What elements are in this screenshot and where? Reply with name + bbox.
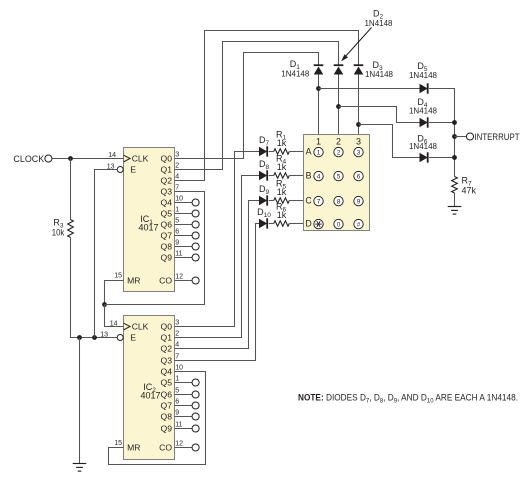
svg-text:A: A: [306, 147, 312, 157]
resistor R4 1k: [274, 153, 290, 178]
wire keypad column 1: [318, 75, 320, 135]
svg-text:CLOCK: CLOCK: [13, 154, 45, 164]
svg-text:14: 14: [108, 152, 116, 159]
svg-text:1k: 1k: [277, 210, 287, 220]
wire R4 to keypad row B: [289, 175, 303, 177]
svg-text:1N4148: 1N4148: [409, 71, 438, 80]
wire D9 cathode to R5: [269, 200, 274, 202]
svg-text:INTERRUPT: INTERRUPT: [475, 132, 520, 142]
wire junction down to IC2 CLK pin 14: [105, 305, 124, 327]
wire R6 to keypad row D: [289, 223, 303, 225]
svg-text:10k: 10k: [52, 228, 65, 238]
IC1 Q7 pin 6 unused (open circle): [175, 232, 200, 239]
wire enable net riser to IC1 E pin 13: [95, 170, 118, 338]
wire D7 cathode to R1: [269, 151, 274, 153]
node interrupt bus / INTERRUPT tap: [452, 134, 457, 139]
diode D6 1N4148: [409, 133, 438, 162]
diode D3 1N4148 (column 3): [354, 65, 364, 74]
svg-text:Q1: Q1: [161, 333, 173, 343]
svg-text:10: 10: [175, 365, 183, 372]
key 6: [354, 171, 363, 180]
svg-text:Q3: Q3: [161, 187, 173, 197]
wire R3 bottom to enable net: [71, 238, 118, 338]
svg-text:MR: MR: [127, 443, 140, 453]
IC IC2 4017 decade counter: [124, 316, 175, 460]
IC2 Q5 pin 1 unused (open circle): [175, 379, 200, 386]
svg-text:9: 9: [175, 410, 179, 417]
wire D5 cathode to interrupt bus: [429, 89, 454, 177]
svg-text:E: E: [130, 333, 136, 343]
IC1 Q6 pin 5 unused (open circle): [175, 221, 200, 228]
wire IC2 Q4 pin 10 loop to MR pin 15: [109, 372, 206, 465]
wire D8 cathode to R4: [269, 175, 274, 177]
svg-text:#: #: [357, 222, 361, 229]
svg-text:1k: 1k: [277, 162, 287, 172]
wire IC2 Q2 riser to keypad row C: [175, 201, 260, 349]
svg-text:4: 4: [175, 174, 179, 181]
wire R7 to ground: [454, 193, 456, 207]
wire IC2 Q1 riser to keypad row B: [175, 176, 260, 338]
IC2 Q8 pin 9 unused (open circle): [175, 413, 200, 420]
keypad matrix body: [304, 135, 370, 231]
key 9: [354, 196, 363, 205]
svg-text:B: B: [306, 171, 312, 181]
pin bubble IC2 E (active low): [117, 335, 123, 341]
svg-text:5: 5: [175, 388, 179, 395]
wire D4 cathode to interrupt bus: [429, 122, 454, 124]
svg-text:Q6: Q6: [161, 390, 173, 400]
svg-text:Q9: Q9: [161, 424, 173, 434]
svg-text:Q4: Q4: [161, 367, 173, 377]
svg-text:1k: 1k: [277, 138, 287, 148]
wire D6 cathode to interrupt bus: [429, 157, 454, 159]
wire CLOCK terminal to IC1 CLK pin 14: [52, 158, 124, 160]
svg-text:1N4148: 1N4148: [364, 19, 393, 28]
svg-text:10: 10: [175, 196, 183, 203]
wire column 3 tap to D6 anode: [359, 125, 420, 158]
diode D5 1N4148: [409, 61, 438, 94]
svg-text:Q2: Q2: [161, 176, 173, 186]
svg-text:CO: CO: [159, 276, 172, 286]
diode D1 1N4148 (column 1): [314, 65, 324, 74]
svg-text:CO: CO: [159, 443, 172, 453]
svg-text:4017: 4017: [140, 391, 160, 401]
svg-text:47k: 47k: [462, 186, 477, 196]
wire IC2 Q0 riser to keypad row A: [175, 152, 260, 327]
ground (right): [448, 207, 462, 215]
node column 3 tap to D6: [356, 122, 361, 127]
diode D10 1N4148 (row D): [257, 207, 271, 229]
IC2 Q9 pin 11 unused (open circle): [175, 425, 200, 432]
svg-text:Q5: Q5: [161, 209, 173, 219]
svg-text:Q2: Q2: [161, 344, 173, 354]
pin bubble IC1 E (active low): [117, 167, 123, 173]
IC1 Q4 pin 10 unused (open circle): [175, 199, 200, 206]
diode D4 1N4148: [409, 97, 438, 128]
label D1: [281, 59, 310, 79]
node interrupt bus / D6: [452, 155, 457, 160]
svg-text:E: E: [130, 165, 136, 175]
key 2: [334, 147, 343, 156]
svg-text:3: 3: [356, 137, 361, 147]
node junction enable net / ground branch: [77, 335, 82, 340]
svg-text:6: 6: [175, 399, 179, 406]
IC1 Q9 pin 11 unused (open circle): [175, 254, 200, 261]
svg-text:7: 7: [175, 354, 179, 361]
key pound: [354, 219, 363, 228]
svg-text:1: 1: [317, 150, 321, 157]
wire IC1 MR pin 15 stub: [105, 281, 124, 305]
svg-text:2: 2: [336, 137, 341, 147]
svg-text:13: 13: [107, 163, 115, 170]
IC2 CO pin 12 unused (open circle): [175, 444, 200, 451]
svg-text:Q7: Q7: [161, 231, 173, 241]
IC1 CO pin 12 unused (open circle): [175, 277, 200, 284]
svg-text:9: 9: [175, 240, 179, 247]
svg-text:3: 3: [357, 150, 361, 157]
svg-text:12: 12: [175, 274, 183, 281]
wire R5 to keypad row C: [289, 200, 303, 202]
wire column 2 tap to D4 anode: [339, 107, 420, 123]
wire IC1 Q0 pin 3 to diode D1 cathode: [175, 53, 319, 159]
svg-text:Q4: Q4: [161, 198, 173, 208]
svg-text:3: 3: [175, 320, 179, 327]
svg-text:D: D: [305, 219, 311, 229]
resistor R3 10k: [52, 218, 74, 238]
wire IC1 Q2 pin 4 to diode D3 cathode: [175, 31, 359, 181]
diode D2 1N4148 (column 2): [334, 65, 344, 74]
svg-text:12: 12: [175, 441, 183, 448]
svg-text:1: 1: [316, 137, 321, 147]
key 3: [354, 147, 363, 156]
IC IC1 4017 decade counter: [124, 148, 175, 292]
wire keypad column 3: [358, 75, 360, 135]
svg-text:4017: 4017: [138, 223, 158, 233]
svg-text:1k: 1k: [277, 187, 287, 197]
node junction IC1 MR / IC1 Q3 / IC2 CLK: [102, 302, 107, 307]
svg-text:2: 2: [175, 331, 179, 338]
svg-text:5: 5: [337, 174, 341, 181]
svg-text:7: 7: [175, 185, 179, 192]
svg-text:2: 2: [175, 163, 179, 170]
svg-text:15: 15: [114, 440, 122, 447]
svg-text:9: 9: [357, 199, 361, 206]
svg-text:Q8: Q8: [161, 412, 173, 422]
svg-text:4: 4: [317, 174, 321, 181]
node junction enable net / IC1 E riser: [92, 335, 97, 340]
diode D7 1N4148 (row A): [259, 135, 270, 157]
key star: [314, 219, 323, 228]
key 0: [334, 219, 343, 228]
svg-text:8: 8: [337, 199, 341, 206]
resistor R1 1k: [274, 129, 290, 154]
svg-text:Q1: Q1: [161, 165, 173, 175]
svg-text:6: 6: [357, 174, 361, 181]
svg-text:C: C: [305, 196, 312, 206]
resistor R6 1k: [274, 201, 290, 226]
wire R1 to keypad row A: [289, 151, 303, 153]
svg-text:11: 11: [175, 422, 182, 429]
svg-text:Q8: Q8: [161, 242, 173, 252]
node column 2 tap to D4: [336, 104, 341, 109]
resistor R7 47k: [452, 176, 477, 196]
diode D8 1N4148 (row B): [259, 159, 270, 181]
wire D10 cathode to R6: [269, 223, 274, 225]
node junction CLOCK / R3: [68, 156, 73, 161]
wire IC1 Q3 pin 7 loop to MR junction: [105, 192, 205, 305]
key 4: [314, 171, 323, 180]
svg-text:13: 13: [100, 331, 108, 338]
svg-text:CLK: CLK: [132, 154, 149, 164]
resistor R5 1k: [274, 178, 290, 203]
wire IC2 Q3 riser to keypad row D: [175, 224, 260, 361]
svg-text:Q0: Q0: [161, 322, 173, 332]
svg-text:MR: MR: [127, 276, 140, 286]
node interrupt bus / D4: [452, 120, 457, 125]
key 5: [334, 171, 343, 180]
label D2 with pointer arrow: [341, 9, 393, 62]
ground (left): [73, 464, 87, 472]
node INTERRUPT output terminal: [466, 132, 519, 142]
svg-text:3: 3: [175, 152, 179, 159]
svg-text:0: 0: [337, 222, 341, 229]
IC1 Q8 pin 9 unused (open circle): [175, 243, 200, 250]
svg-text:Q3: Q3: [161, 356, 173, 366]
svg-text:CLK: CLK: [132, 322, 149, 332]
label D3: [365, 60, 394, 79]
wire CLOCK junction down to R3: [70, 159, 72, 220]
svg-text:Q7: Q7: [161, 401, 173, 411]
wire ground drop from enable net: [79, 338, 81, 464]
svg-text:Q5: Q5: [161, 378, 173, 388]
node column 1 tap to D5: [316, 86, 321, 91]
svg-text:Q9: Q9: [161, 253, 173, 263]
IC1 Q5 pin 1 unused (open circle): [175, 210, 200, 217]
wire column 1 tap to D5 anode: [319, 88, 420, 90]
svg-text:1: 1: [175, 376, 179, 383]
key 8: [334, 196, 343, 205]
svg-text:1N4148: 1N4148: [281, 70, 310, 79]
svg-text:6: 6: [175, 229, 179, 236]
svg-text:1N4148: 1N4148: [409, 142, 438, 151]
key 7: [314, 196, 323, 205]
svg-text:1N4148: 1N4148: [365, 70, 394, 79]
node CLOCK input terminal: [13, 154, 52, 164]
svg-text:Q0: Q0: [161, 154, 173, 164]
svg-text:Q6: Q6: [161, 220, 173, 230]
IC2 Q7 pin 6 unused (open circle): [175, 402, 200, 409]
svg-text:11: 11: [175, 251, 182, 258]
wire keypad column 2: [338, 75, 340, 135]
svg-text:7: 7: [317, 199, 321, 206]
wire INTERRUPT tap to terminal: [455, 136, 467, 138]
svg-text:2: 2: [337, 150, 341, 157]
wire IC1 Q1 pin 2 to diode D2 cathode: [175, 42, 339, 170]
diode D9 1N4148 (row C): [259, 184, 270, 206]
svg-text:1: 1: [175, 207, 179, 214]
svg-text:5: 5: [175, 218, 179, 225]
IC2 Q6 pin 5 unused (open circle): [175, 391, 200, 398]
svg-text:4: 4: [175, 342, 179, 349]
svg-text:1N4148: 1N4148: [409, 106, 438, 115]
svg-text:15: 15: [114, 273, 122, 280]
key 1: [314, 147, 323, 156]
